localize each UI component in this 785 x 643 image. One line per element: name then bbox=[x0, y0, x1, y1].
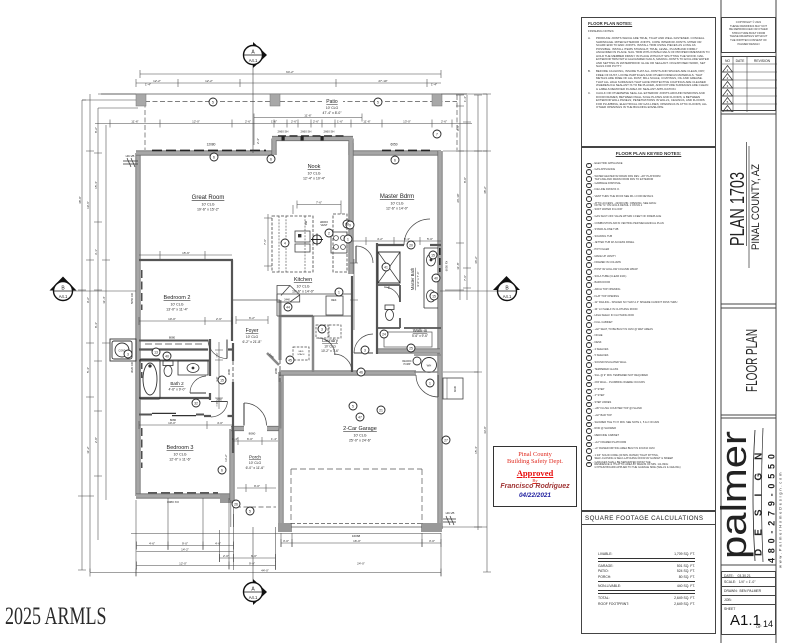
svg-text:5: 5 bbox=[377, 100, 379, 104]
master shower bbox=[378, 252, 400, 283]
svg-text:8'-2": 8'-2" bbox=[94, 127, 98, 133]
svg-text:64'-2": 64'-2" bbox=[286, 70, 294, 74]
svg-text:8060: 8060 bbox=[249, 432, 256, 436]
svg-text:45: 45 bbox=[288, 358, 292, 362]
svg-text:9'-0" x 7'-4": 9'-0" x 7'-4" bbox=[416, 271, 420, 286]
svg-text:2'-8": 2'-8" bbox=[94, 437, 98, 443]
svg-text:PINAL COUNTY, AZ: PINAL COUNTY, AZ bbox=[750, 164, 762, 250]
svg-text:10'-0": 10'-0" bbox=[168, 421, 176, 425]
svg-text:5: 5 bbox=[212, 100, 214, 104]
window: great room 12080 bbox=[152, 149, 266, 151]
exterior wall: right bbox=[437, 151, 442, 529]
svg-text:10' CLG: 10' CLG bbox=[249, 461, 262, 465]
svg-text:Foyer: Foyer bbox=[246, 328, 259, 334]
svg-text:1'-4": 1'-4" bbox=[271, 437, 277, 441]
svg-text:12080: 12080 bbox=[207, 143, 216, 147]
svg-text:27'-10": 27'-10" bbox=[378, 79, 387, 83]
patio roof line bbox=[101, 93, 467, 95]
svg-text:11'-6": 11'-6" bbox=[304, 113, 311, 117]
svg-text:12'-4" x 10'-4": 12'-4" x 10'-4" bbox=[303, 177, 326, 181]
svg-text:5050 XO: 5050 XO bbox=[130, 292, 134, 304]
svg-text:10' CLG: 10' CLG bbox=[296, 285, 309, 289]
master vanity with two sinks bbox=[424, 248, 438, 308]
svg-text:13'-0" x 11'-4": 13'-0" x 11'-4" bbox=[166, 308, 189, 312]
foyer width dim bbox=[236, 316, 268, 324]
mud entry diagonal wall bbox=[267, 353, 279, 365]
svg-text:1'-6": 1'-6" bbox=[337, 119, 343, 123]
exterior wall: left bbox=[135, 153, 140, 496]
svg-text:3: 3 bbox=[127, 352, 129, 356]
svg-text:13: 13 bbox=[154, 350, 158, 354]
svg-text:15: 15 bbox=[431, 253, 435, 257]
room label: Porch bbox=[224, 454, 265, 470]
door: master bath entry bbox=[404, 219, 430, 245]
svg-text:2-Car Garage: 2-Car Garage bbox=[343, 426, 377, 432]
svg-text:46'-2": 46'-2" bbox=[474, 256, 478, 264]
svg-text:9: 9 bbox=[349, 223, 351, 227]
svg-text:10' CLG: 10' CLG bbox=[201, 203, 214, 207]
svg-text:PUMP: PUMP bbox=[404, 363, 411, 366]
room label: Kitchen bbox=[292, 277, 315, 294]
dimension lines: bottom bbox=[90, 437, 441, 577]
svg-text:1'-4": 1'-4" bbox=[232, 437, 238, 441]
svg-text:27: 27 bbox=[444, 438, 448, 442]
interior wall: foyer east bbox=[279, 300, 282, 429]
svg-text:6030: 6030 bbox=[453, 385, 457, 392]
svg-text:2'-6": 2'-6" bbox=[441, 119, 447, 123]
svg-text:VENT: VENT bbox=[321, 223, 328, 227]
exterior wall: top great room bbox=[136, 150, 274, 155]
plan number underlines bbox=[747, 142, 750, 268]
svg-text:11'-4": 11'-4" bbox=[102, 296, 106, 303]
svg-text:480-279-0550: 480-279-0550 bbox=[767, 449, 777, 563]
section marker A bottom bbox=[244, 527, 268, 605]
water heater bbox=[413, 355, 441, 373]
exterior wall: nook/kitchen east bbox=[348, 143, 353, 274]
svg-text:2440: 2440 bbox=[268, 352, 275, 359]
bedroom3 dim row bbox=[139, 421, 233, 429]
svg-text:12'-0": 12'-0" bbox=[192, 119, 200, 123]
svg-text:48'-2": 48'-2" bbox=[483, 186, 487, 194]
svg-text:2: 2 bbox=[328, 231, 330, 235]
svg-text:6: 6 bbox=[394, 158, 396, 162]
plan number box bbox=[721, 114, 776, 304]
bath2 vanity bbox=[178, 361, 208, 375]
door: bath2 bbox=[190, 376, 206, 393]
patio post 2 bbox=[270, 94, 280, 106]
svg-text:8'-4": 8'-4" bbox=[94, 322, 98, 328]
svg-text:6'-2": 6'-2" bbox=[249, 316, 255, 320]
svg-text:9'-6": 9'-6" bbox=[456, 125, 460, 131]
svg-text:A4.1: A4.1 bbox=[249, 58, 258, 63]
walk-in south wall bbox=[377, 348, 440, 353]
door: garage service bbox=[416, 375, 438, 397]
svg-text:Laundry: Laundry bbox=[322, 338, 339, 343]
patio dashed edge bbox=[145, 95, 457, 150]
dimension lines: right bbox=[441, 94, 491, 572]
kitchen east counter with range bbox=[331, 214, 347, 272]
svg-text:Nook: Nook bbox=[308, 164, 321, 170]
square footage panel bbox=[581, 511, 716, 634]
svg-text:48'-0": 48'-0" bbox=[78, 196, 82, 204]
svg-text:9'-0": 9'-0" bbox=[182, 541, 188, 545]
approval stamp bbox=[493, 446, 577, 507]
patio post 4 bbox=[432, 94, 442, 106]
svg-text:A4.1: A4.1 bbox=[503, 294, 512, 299]
svg-text:3020 XO: 3020 XO bbox=[130, 361, 134, 373]
svg-text:STACK: STACK bbox=[297, 353, 305, 356]
svg-text:7'-6": 7'-6" bbox=[263, 239, 267, 245]
door: bedroom2 bbox=[208, 340, 227, 359]
svg-text:12'-2": 12'-2" bbox=[205, 79, 213, 83]
svg-text:2'-6": 2'-6" bbox=[216, 317, 222, 321]
svg-text:24: 24 bbox=[382, 332, 386, 336]
svg-text:10' CLG: 10' CLG bbox=[390, 202, 403, 206]
svg-text:Bath 2: Bath 2 bbox=[170, 381, 184, 386]
title block: rails and rotated text boxes bbox=[716, 0, 785, 643]
interior wall: hall / master suite west bbox=[376, 243, 378, 354]
kitchen south counter bbox=[277, 294, 351, 316]
svg-text:44'-0": 44'-0" bbox=[261, 568, 269, 572]
front wall at foyer/porch bbox=[231, 426, 282, 431]
svg-text:4'-6" x 9'-0": 4'-6" x 9'-0" bbox=[168, 388, 186, 392]
svg-text:15'-4": 15'-4" bbox=[94, 181, 98, 189]
dimension labels: top bbox=[131, 70, 447, 144]
exterior wall: nook bay bbox=[272, 139, 353, 156]
svg-text:4'-0": 4'-0" bbox=[217, 421, 223, 425]
svg-text:26: 26 bbox=[234, 502, 238, 506]
svg-text:6: 6 bbox=[221, 468, 223, 472]
svg-text:3: 3 bbox=[321, 327, 323, 331]
svg-text:15: 15 bbox=[432, 294, 436, 298]
svg-text:13'-2": 13'-2" bbox=[224, 454, 228, 462]
window: bedroom3 bottom 8080 XO bbox=[148, 492, 218, 494]
porch left wall bbox=[229, 429, 234, 500]
svg-text:12'-0" x 11'-6": 12'-0" x 11'-6" bbox=[169, 458, 192, 462]
svg-text:5: 5 bbox=[249, 509, 251, 513]
svg-text:10' CLG: 10' CLG bbox=[170, 303, 183, 307]
svg-text:6050: 6050 bbox=[390, 143, 397, 147]
notes panel bbox=[581, 17, 716, 147]
condenser unit outside left wall bbox=[110, 339, 136, 361]
window: bath2 left wall bbox=[141, 363, 143, 378]
keyed note numbers bbox=[127, 100, 448, 513]
svg-text:12'-2": 12'-2" bbox=[153, 79, 161, 83]
svg-text:7'-6": 7'-6" bbox=[463, 275, 467, 281]
svg-text:10'-2" x 7'-6": 10'-2" x 7'-6" bbox=[321, 349, 339, 353]
svg-text:Walk-in: Walk-in bbox=[413, 328, 428, 333]
svg-text:4'-6": 4'-6" bbox=[149, 541, 155, 545]
svg-text:6'-0" x 11'-6": 6'-0" x 11'-6" bbox=[246, 466, 266, 470]
interior wall: foyer west lower bbox=[232, 343, 234, 453]
sheet title box bbox=[721, 308, 776, 415]
svg-text:2660 SH: 2660 SH bbox=[301, 130, 312, 134]
svg-text:Porch: Porch bbox=[249, 455, 261, 460]
svg-text:A4.1: A4.1 bbox=[249, 595, 258, 600]
svg-text:16068: 16068 bbox=[352, 534, 361, 538]
svg-text:3080: 3080 bbox=[227, 368, 231, 375]
interior wall: bath2 north bbox=[139, 360, 209, 362]
interior wall: bedroom2 north bbox=[139, 259, 233, 261]
svg-text:5'-4": 5'-4" bbox=[86, 367, 90, 373]
svg-text:6'-2" x 21'-8": 6'-2" x 21'-8" bbox=[243, 340, 263, 344]
section marker A top bbox=[244, 42, 268, 153]
svg-text:1: 1 bbox=[338, 290, 340, 294]
dimension lines: top bbox=[95, 70, 472, 145]
window: master 6050 bbox=[382, 149, 432, 151]
interior wall: bath2 south bbox=[139, 397, 209, 399]
svg-text:10'-6" x 14'-0": 10'-6" x 14'-0" bbox=[292, 290, 315, 294]
svg-text:8080 XO: 8080 XO bbox=[167, 500, 180, 504]
svg-text:DESIGN: DESIGN bbox=[754, 440, 765, 556]
svg-text:6050 FX: 6050 FX bbox=[445, 261, 449, 272]
window: bedroom2 left wall bbox=[141, 270, 143, 310]
svg-text:WH: WH bbox=[427, 364, 432, 368]
svg-text:10' CLG: 10' CLG bbox=[173, 453, 186, 457]
svg-text:5'-6" x 9'-6": 5'-6" x 9'-6" bbox=[412, 334, 428, 338]
svg-text:HD-VB: HD-VB bbox=[446, 511, 455, 515]
svg-text:9'-2": 9'-2" bbox=[86, 297, 90, 303]
keyed note circles bbox=[124, 98, 450, 515]
window: master bath east wall bbox=[439, 248, 441, 272]
room label: Laundry bbox=[321, 338, 339, 353]
garage west wall bbox=[278, 372, 283, 525]
svg-text:24'-0": 24'-0" bbox=[357, 561, 365, 565]
room label: 2-Car Garage bbox=[343, 426, 377, 443]
plan number text bbox=[727, 164, 762, 250]
interior wall: bedroom2 east / foyer west bbox=[231, 260, 233, 341]
svg-text:6: 6 bbox=[270, 157, 272, 161]
svg-text:1: 1 bbox=[429, 381, 431, 385]
svg-text:6'-0": 6'-0" bbox=[247, 437, 253, 441]
garage door piers bbox=[278, 523, 292, 532]
svg-text:19'-6": 19'-6" bbox=[86, 201, 90, 209]
door: front entry bbox=[244, 403, 267, 426]
svg-text:DW: DW bbox=[304, 220, 308, 225]
svg-text:7'-6": 7'-6" bbox=[215, 401, 219, 406]
bath2 tub bbox=[140, 359, 160, 399]
interior wall: hall north bbox=[139, 348, 233, 350]
HD-VB symbol right bbox=[443, 516, 456, 525]
interior wall: toilet room bbox=[377, 285, 400, 328]
svg-text:2440: 2440 bbox=[284, 298, 290, 302]
dimension labels: left (rotated) bbox=[78, 127, 106, 454]
interior wall: kitchen south / laundry bbox=[281, 315, 313, 318]
svg-text:Patio: Patio bbox=[326, 99, 338, 105]
title block: revision table bbox=[721, 56, 776, 111]
svg-text:26'-10": 26'-10" bbox=[456, 193, 460, 202]
exterior landing at garage service door bbox=[443, 378, 463, 399]
svg-text:11'-6": 11'-6" bbox=[363, 119, 370, 123]
svg-text:1'-4": 1'-4" bbox=[145, 83, 151, 87]
svg-text:16'-0": 16'-0" bbox=[353, 539, 361, 543]
HD-VB symbol left bbox=[123, 158, 138, 167]
door: bedroom3 bbox=[211, 397, 228, 417]
svg-text:Bedroom 3: Bedroom 3 bbox=[167, 445, 194, 451]
svg-text:47: 47 bbox=[358, 415, 362, 419]
svg-text:13'-0": 13'-0" bbox=[403, 119, 411, 123]
svg-text:7'-6": 7'-6" bbox=[316, 200, 322, 204]
interior wall: laundry/hall east bbox=[351, 276, 353, 372]
title block: info rows bbox=[721, 571, 776, 635]
svg-text:REF.: REF. bbox=[331, 298, 337, 302]
interior wall: walkin north bbox=[404, 327, 441, 329]
svg-text:1'-4": 1'-4" bbox=[463, 96, 467, 102]
section marker B left bbox=[50, 277, 137, 301]
svg-text:2680: 2680 bbox=[274, 367, 278, 374]
window: bedroom3 left wall bbox=[141, 428, 143, 468]
title block: copyright box bbox=[721, 17, 776, 53]
svg-text:10' CLG: 10' CLG bbox=[326, 106, 339, 110]
svg-text:21: 21 bbox=[379, 408, 383, 412]
svg-text:11'-6": 11'-6" bbox=[131, 119, 138, 123]
svg-text:HD-VB: HD-VB bbox=[126, 154, 135, 158]
door: garage to mud hall bbox=[334, 354, 352, 372]
svg-text:12'-6" x 14'-0": 12'-6" x 14'-0" bbox=[386, 207, 409, 211]
svg-text:4'-6": 4'-6" bbox=[215, 541, 221, 545]
garage door line bbox=[291, 526, 422, 528]
svg-text:15: 15 bbox=[220, 378, 224, 382]
svg-text:Master Bdrm: Master Bdrm bbox=[380, 194, 414, 200]
door: hall lower bbox=[354, 334, 373, 353]
svg-text:3: 3 bbox=[364, 348, 366, 352]
room label: Great Room bbox=[192, 195, 225, 212]
interior wall: hall east / bath2 east bbox=[209, 339, 211, 400]
svg-text:10' CLG: 10' CLG bbox=[246, 335, 259, 339]
dimension labels: bottom bbox=[149, 437, 435, 573]
room label: Walk-in bbox=[412, 328, 428, 338]
hall dimension string bbox=[215, 342, 223, 409]
svg-text:2660: 2660 bbox=[216, 397, 222, 401]
svg-text:Great Room: Great Room bbox=[192, 195, 225, 201]
svg-text:15'-4": 15'-4" bbox=[474, 446, 478, 454]
svg-text:11'-8": 11'-8" bbox=[456, 262, 460, 269]
garage interior dashed outline bbox=[291, 469, 422, 524]
svg-text:2'-4": 2'-4" bbox=[256, 138, 260, 144]
svg-text:palmer: palmer bbox=[716, 431, 754, 559]
corner pantry bbox=[277, 286, 300, 303]
svg-text:43'-0": 43'-0" bbox=[483, 426, 487, 434]
svg-text:3'-0": 3'-0" bbox=[429, 539, 435, 543]
svg-text:32: 32 bbox=[194, 401, 198, 405]
door: toilet room bbox=[384, 287, 400, 302]
exterior wall: top master bbox=[349, 150, 441, 155]
svg-text:2660 SH: 2660 SH bbox=[324, 130, 335, 134]
svg-text:1'-4": 1'-4" bbox=[431, 83, 437, 87]
svg-text:9'-0": 9'-0" bbox=[249, 561, 255, 565]
svg-text:10' CLG: 10' CLG bbox=[353, 434, 366, 438]
svg-text:5'-0": 5'-0" bbox=[427, 237, 433, 241]
master toilet bbox=[385, 305, 394, 321]
room label: Bath 2 bbox=[168, 381, 186, 392]
svg-text:9'-0": 9'-0" bbox=[254, 484, 260, 488]
svg-text:2'-0": 2'-0" bbox=[223, 554, 229, 558]
bath2 toilet bbox=[163, 361, 173, 377]
svg-text:2'-6": 2'-6" bbox=[313, 119, 319, 123]
svg-text:5'-4": 5'-4" bbox=[404, 237, 410, 241]
laundry appliances bbox=[293, 325, 341, 360]
svg-text:FLOOR PLAN: FLOOR PLAN bbox=[744, 329, 761, 392]
svg-text:40: 40 bbox=[434, 276, 438, 280]
svg-text:6'-0": 6'-0" bbox=[251, 554, 257, 558]
kitchen faucet symbol bbox=[311, 234, 323, 246]
kitchen island (dashed) bbox=[272, 216, 313, 272]
svg-text:1'-6": 1'-6" bbox=[271, 119, 277, 123]
door: hall to master bath upper bbox=[356, 246, 373, 263]
svg-text:2'-6": 2'-6" bbox=[291, 119, 297, 123]
room label: Patio bbox=[322, 98, 343, 116]
svg-text:PLAN 1703: PLAN 1703 bbox=[727, 172, 749, 246]
interior dimension rows bbox=[139, 201, 441, 493]
svg-text:5: 5 bbox=[352, 404, 354, 408]
wall post at porch corner bbox=[220, 495, 233, 504]
patio post 1 bbox=[136, 94, 146, 106]
svg-text:14'-2": 14'-2" bbox=[181, 547, 189, 551]
svg-text:Kitchen: Kitchen bbox=[294, 277, 312, 283]
interior wall: laundry west bbox=[312, 316, 315, 372]
svg-text:19'-6" x 15'-2": 19'-6" x 15'-2" bbox=[197, 208, 220, 212]
svg-text:47'-4" x 8'-0": 47'-4" x 8'-0" bbox=[323, 111, 343, 115]
svg-text:2'-6": 2'-6" bbox=[245, 119, 251, 123]
svg-text:4'-2": 4'-2" bbox=[377, 237, 383, 241]
svg-text:10' CLG: 10' CLG bbox=[324, 345, 336, 349]
svg-text:MED: MED bbox=[299, 351, 304, 353]
svg-text:44: 44 bbox=[286, 305, 290, 309]
palmer swash bbox=[753, 430, 755, 561]
svg-text:3'-0": 3'-0" bbox=[283, 539, 289, 543]
garage north wall bbox=[279, 370, 416, 375]
bedroom3 closet bbox=[139, 414, 204, 416]
svg-text:11'-2": 11'-2" bbox=[86, 446, 90, 453]
svg-text:25: 25 bbox=[409, 346, 413, 350]
room label: Bedroom 2 bbox=[164, 295, 191, 312]
svg-text:10'-0": 10'-0" bbox=[168, 317, 176, 321]
svg-text:10' CLG: 10' CLG bbox=[307, 172, 320, 176]
room label: Master Bdrm bbox=[380, 194, 414, 211]
windows: nook 2660 SH x3 bbox=[278, 135, 347, 137]
svg-text:8'-0": 8'-0" bbox=[463, 177, 467, 183]
svg-text:A4.1: A4.1 bbox=[59, 294, 68, 299]
interior wall: bedroom3 north bbox=[204, 415, 233, 417]
interior wall: bedroom2 south + closet bbox=[139, 340, 208, 342]
design swash bbox=[762, 428, 764, 562]
svg-text:25'-0" x 24'-6": 25'-0" x 24'-6" bbox=[349, 439, 372, 443]
svg-text:3'-1": 3'-1" bbox=[94, 249, 98, 255]
foyer arch opening header bbox=[233, 299, 280, 301]
svg-text:4: 4 bbox=[284, 241, 286, 245]
svg-text:Bedroom 2: Bedroom 2 bbox=[164, 295, 191, 301]
svg-text:1: 1 bbox=[347, 237, 349, 241]
interior wall: master bath north bbox=[377, 244, 441, 246]
svg-text:20: 20 bbox=[409, 243, 413, 247]
room label: Nook bbox=[303, 164, 326, 181]
svg-text:15'-6": 15'-6" bbox=[182, 251, 190, 255]
title block rails bbox=[721, 0, 776, 643]
svg-text:7: 7 bbox=[436, 132, 438, 136]
svg-text:www.PalmerHomeDesign.com: www.PalmerHomeDesign.com bbox=[778, 471, 783, 568]
svg-text:6: 6 bbox=[213, 155, 215, 159]
svg-text:8080: 8080 bbox=[169, 336, 176, 340]
palmer logo box bbox=[721, 418, 776, 565]
dimension lines: left bbox=[78, 94, 138, 572]
exterior wall: bedroom3 bottom bbox=[136, 493, 230, 498]
room label: Bedroom 3 bbox=[167, 445, 194, 462]
section marker B right bbox=[440, 276, 520, 301]
keyed notes panel bbox=[581, 147, 716, 511]
walk-in shelf line bbox=[384, 332, 432, 347]
room label: Foyer bbox=[243, 328, 263, 344]
ARMLS watermark bbox=[5, 603, 107, 631]
